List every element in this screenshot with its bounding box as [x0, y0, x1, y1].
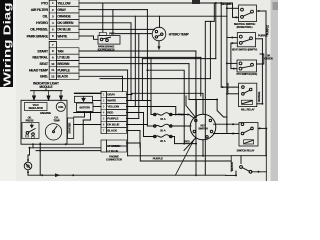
wire vertical x139: [138, 34, 140, 119]
wire vertical x151: [150, 59, 152, 115]
wire DK GREEN from J1 pin 4: [79, 22, 131, 24]
hydro temp switch S2: [152, 27, 166, 41]
svg-text:WHITE: WHITE: [57, 34, 68, 38]
svg-text:CONNECTOR: CONNECTOR: [106, 158, 122, 162]
arrow down: [157, 46, 160, 50]
wire dkblue to fuse2 feed: [127, 124, 148, 126]
svg-text:DK BLUE: DK BLUE: [57, 28, 71, 32]
svg-text:HYDRO TEMP: HYDRO TEMP: [169, 33, 190, 37]
wire ORANGE from J1 pin 3: [79, 15, 227, 17]
svg-text:GREEN: GREEN: [264, 57, 272, 60]
wire color cell TAN: [56, 48, 79, 55]
wire x83 down: [82, 120, 84, 144]
wire diagonal into key: [186, 106, 195, 118]
wire bus y79: [100, 78, 210, 80]
wire bridge y99.5 to bend: [196, 99, 217, 101]
svg-text:REGULATOR: REGULATOR: [29, 107, 44, 110]
pto switch output wire: [257, 54, 264, 64]
wire right x266 down: [265, 128, 267, 155]
svg-text:GRAY: GRAY: [107, 93, 115, 97]
connector J1 indicator light module: pin strip lower: [49, 42, 56, 80]
wire color cell PURPLE: [56, 67, 79, 74]
svg-text:Wiring Diag: Wiring Diag: [2, 3, 13, 87]
svg-text:SEAT: SEAT: [39, 62, 48, 66]
J1 pin 5 cell: [49, 25, 56, 27]
wire vertical x216: [215, 3, 217, 59]
wire LT BLUE from J1 pin 9: [79, 56, 201, 58]
wire GRAY from J1 pin 2: [79, 9, 147, 11]
wire color cell DK GREEN: [56, 20, 79, 27]
svg-text:BROWN: BROWN: [57, 62, 70, 66]
wire gray to key switch: [127, 93, 204, 114]
wires into kill relay: [221, 86, 238, 88]
J1 pin 6 cell: [49, 32, 56, 34]
junctions into switch relay: [232, 123, 234, 125]
J2 wire color cell RED: [107, 110, 127, 116]
wire color cell BLACK: [56, 73, 79, 80]
svg-text:BATTERY: BATTERY: [79, 107, 90, 110]
battery B1: [75, 96, 94, 111]
svg-text:GRAY: GRAY: [57, 8, 66, 12]
svg-text:SEAT SWITCH (EMPTY): SEAT SWITCH (EMPTY): [232, 49, 257, 52]
wire vertical x201: [200, 57, 202, 96]
wire yellow row to pink node: [127, 107, 176, 115]
wire from hydro temp down: [158, 41, 160, 47]
wire color cell BROWN: [56, 60, 79, 67]
wire battery to connector: [93, 100, 102, 102]
wire neutral switch output: [257, 10, 266, 12]
svg-text:KILL RELAY: KILL RELAY: [241, 107, 255, 111]
svg-text:OIL PRESS.: OIL PRESS.: [30, 28, 48, 32]
J1 pin 10 cell: [49, 59, 56, 61]
wire vertical x113 (gray drop to pink): [112, 10, 114, 34]
small dark mark top edge: [192, 0, 200, 4]
J2 pin 5 cell: [101, 115, 107, 117]
wire white into park brake: [94, 36, 99, 39]
wire BLACK from J1 pin 12: [79, 75, 123, 77]
J2 pin 6 cell: [101, 121, 107, 123]
svg-text:RED: RED: [184, 140, 189, 144]
switch relay output: [258, 127, 266, 129]
svg-text:PRESS: PRESS: [26, 119, 34, 122]
wire key right lower to relay: [214, 133, 240, 135]
engine connector J2 pin strip: [101, 92, 107, 134]
wire key right upper to relay: [214, 123, 240, 125]
wire color cell LT BLUE: [56, 54, 79, 61]
J1 pin 7 cell: [49, 40, 56, 42]
J1 pin 2 cell: [49, 5, 56, 7]
svg-text:PTO: PTO: [41, 1, 48, 5]
J1 pin 3 cell: [49, 12, 56, 14]
svg-text:LT BLUE: LT BLUE: [57, 56, 70, 60]
wires bottom right: [226, 174, 237, 176]
svg-text:TAN: TAN: [57, 49, 64, 53]
svg-text:ENGINE: ENGINE: [40, 111, 51, 115]
faint scan wash over diagram area: [16, 0, 270, 181]
wire white to fuse1: [127, 100, 152, 102]
J2 wire color cell GRAY: [107, 92, 127, 98]
svg-text:20 A: 20 A: [160, 129, 165, 133]
svg-text:YELLOW: YELLOW: [107, 105, 119, 109]
J2 pin 1 cell: [101, 91, 107, 93]
J2 wire color cell PURPLE: [107, 116, 127, 122]
wire vertical x103 (yellow drop): [102, 3, 104, 32]
J1 pin 12 cell: [49, 72, 56, 74]
oil pressure switch: [22, 117, 39, 139]
J2 pin 2 cell: [101, 97, 107, 99]
J2 pin 3 cell: [101, 103, 107, 105]
svg-text:YELLOW: YELLOW: [57, 1, 71, 5]
J2 wire color cell YELLOW: [107, 104, 127, 110]
wire PURPLE from J1 pin 11: [79, 69, 128, 71]
wire DK BLUE from J1 pin 5: [79, 28, 155, 30]
svg-text:PURPLE: PURPLE: [107, 117, 118, 121]
wire vertical x147: [146, 10, 148, 126]
seat switch S4: [237, 33, 255, 47]
svg-text:MODULE: MODULE: [40, 85, 53, 89]
wire color cell WHITE: [56, 33, 79, 40]
svg-text:BLACK: BLACK: [107, 129, 118, 133]
wire TAN from J1 pin 8: [79, 50, 196, 52]
svg-text:11: 11: [51, 68, 54, 72]
wire red: [127, 112, 144, 114]
wire vertical x262: [261, 39, 263, 104]
wire YELLOW from J1 pin 1: [79, 2, 214, 4]
svg-text:START: START: [37, 49, 49, 53]
wire black stub: [127, 130, 141, 132]
fuse F3 20A: [154, 135, 173, 143]
svg-text:HEAD TEMP: HEAD TEMP: [29, 68, 49, 72]
wires into pto switch: [227, 62, 237, 64]
wire staircase from yellow row: [205, 3, 214, 175]
wire WHITE from J1 pin 6: [79, 35, 94, 37]
wire color cell GRAY: [56, 6, 79, 13]
J2 wire color cell LT BLUE: [107, 146, 127, 152]
wire vertical x135: [134, 16, 136, 106]
wire pink: [116, 33, 152, 35]
svg-text:PTO SWITCH (OFF): PTO SWITCH (OFF): [236, 73, 257, 76]
arrow on bottom wire: [55, 173, 61, 177]
J1 pin 9 cell: [49, 53, 56, 55]
wire vertical x227: [226, 3, 228, 134]
wire to lt blue: [36, 150, 101, 152]
J2 wire color cell WHITE: [107, 98, 127, 104]
wire key bottom: [202, 140, 204, 156]
J2 wire color cell BLACK: [107, 128, 127, 134]
neutral switch S3: [239, 5, 257, 22]
arrows into engine box: [31, 90, 63, 92]
kill relay output: [257, 103, 263, 105]
wire purple stub: [127, 118, 139, 120]
ground connector circle: [24, 162, 32, 170]
wire vertical right edge x266: [265, 11, 267, 156]
wire vertical x221: [220, 3, 222, 87]
svg-text:(IN NEUTRAL): (IN NEUTRAL): [237, 25, 253, 29]
svg-text:COIL: COIL: [58, 106, 64, 109]
wire bus y58: [142, 58, 215, 60]
wire engine bottom drop 1: [32, 144, 34, 148]
J2 pin 4 cell: [101, 109, 107, 111]
wire lt green loop right: [127, 143, 232, 161]
wire fuse2 left stub: [147, 125, 153, 127]
svg-text:GND.: GND.: [40, 75, 48, 79]
pto switch S5: [237, 60, 257, 72]
svg-text:BLACK: BLACK: [230, 162, 234, 171]
svg-text:PURPLE: PURPLE: [153, 156, 163, 160]
wire drop x40: [39, 143, 41, 175]
J2 wire color cell LT GREEN: [107, 140, 127, 146]
magazine sidebar black bar: [0, 0, 13, 87]
svg-text:PURPLE: PURPLE: [57, 68, 70, 72]
svg-text:15 A: 15 A: [160, 117, 165, 121]
fuse F1 15A: [154, 113, 173, 121]
wires into seat switch: [227, 37, 237, 39]
wire vertical x131: [130, 23, 132, 101]
J1 pin 11 cell: [49, 66, 56, 68]
wire color cell DK BLUE: [56, 26, 79, 33]
svg-text:PARK BRAKE: PARK BRAKE: [27, 34, 49, 38]
wire vertical x128: [127, 70, 129, 156]
wire x196 down: [195, 140, 197, 176]
starter box: [68, 118, 74, 139]
wire key diagonal bottom-left: [184, 138, 196, 151]
wire loop outer from seat row: [189, 64, 196, 118]
svg-text:DK BLUE: DK BLUE: [107, 123, 119, 127]
svg-text:20 A: 20 A: [160, 139, 165, 143]
fuse F2 20A: [154, 124, 173, 132]
coil: [56, 102, 65, 111]
J1 pin 8 cell: [49, 47, 56, 49]
svg-text:DK GREEN: DK GREEN: [57, 21, 74, 25]
svg-text:SWITCH: SWITCH: [198, 127, 208, 131]
kill relay K1: [239, 83, 257, 106]
dark smudge top right margin: [273, 2, 279, 10]
connector J1 indicator light module: pin strip upper: [49, 0, 56, 39]
svg-text:12: 12: [51, 75, 55, 79]
J1 pin 4 cell: [49, 19, 56, 21]
wire battery down right: [83, 112, 90, 121]
wire BROWN from J1 pin 10: [79, 63, 189, 65]
volt regulator: [25, 103, 48, 111]
wire out of ground circle: [27, 170, 29, 175]
wire loop inner: [147, 70, 184, 143]
svg-text:ORANGE: ORANGE: [258, 91, 261, 102]
starter solenoid switch box: [231, 156, 266, 181]
svg-text:ORANGE: ORANGE: [225, 83, 229, 95]
key switch S6: [190, 114, 216, 140]
svg-text:10: 10: [51, 62, 55, 66]
svg-text:LT BLUE: LT BLUE: [108, 149, 119, 153]
wire bottom engine: [67, 143, 83, 145]
wire bottom y175: [28, 174, 226, 176]
J2 pin 7 cell: [101, 127, 107, 129]
svg-text:WHITE: WHITE: [107, 99, 116, 103]
wire to lt green: [30, 147, 102, 149]
svg-text:NEUTRAL: NEUTRAL: [32, 56, 48, 60]
wire vertical x142: [141, 59, 143, 100]
svg-text:PURPLE: PURPLE: [266, 25, 270, 35]
svg-text:HYDRO: HYDRO: [36, 21, 48, 25]
switch relay K2: [239, 123, 258, 147]
cyl temp gauge: [45, 117, 61, 140]
wire hydro temp top: [159, 16, 161, 27]
wire color cell ORANGE: [56, 13, 79, 20]
fuse output wires: [172, 114, 189, 116]
J2 wire color cell DK BLUE: [107, 122, 127, 128]
wire vertical x196: [195, 51, 197, 140]
scanned page right margin: [271, 0, 279, 181]
svg-text:BLACK: BLACK: [57, 75, 68, 79]
wire vertical x210: [209, 21, 211, 78]
svg-text:SWITCH RELAY: SWITCH RELAY: [237, 149, 255, 153]
engine box: [21, 100, 67, 144]
wires into neutral switch: [214, 2, 232, 4]
svg-text:ORANGE: ORANGE: [57, 14, 71, 18]
seat switch output wire: [256, 38, 263, 40]
wire vertical x122 gnd drop: [122, 76, 124, 91]
J1 pin 1 cell: [49, 0, 56, 1]
svg-text:STARTER: STARTER: [69, 122, 72, 133]
svg-text:AIR FILTER: AIR FILTER: [31, 8, 49, 12]
J2 lower pins: [101, 140, 107, 152]
wires starter to connector: [74, 112, 101, 114]
wire bundle above battery: [75, 92, 102, 94]
wire color cell YELLOW: [56, 0, 79, 6]
svg-text:(DEPRESSED): (DEPRESSED): [98, 47, 115, 51]
wire bottom long: [128, 155, 232, 157]
svg-text:TEMP: TEMP: [53, 119, 60, 122]
park brake switch SW1: [98, 32, 120, 44]
